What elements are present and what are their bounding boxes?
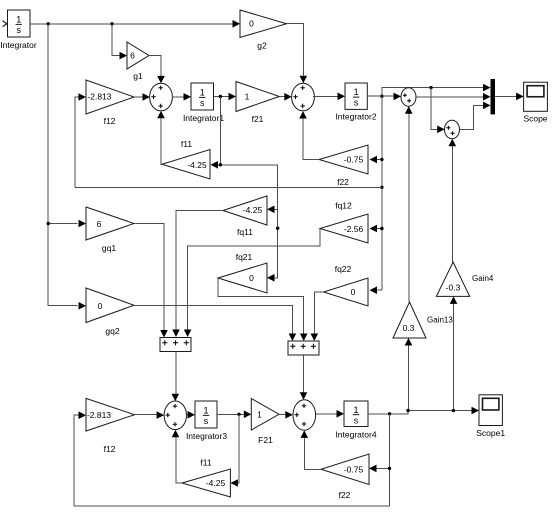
svg-text:-0.75: -0.75 bbox=[344, 155, 364, 165]
svg-text:1: 1 bbox=[354, 87, 359, 97]
svg-text:f12: f12 bbox=[104, 116, 116, 126]
gain g2 (0) bbox=[240, 10, 287, 38]
svg-text:0: 0 bbox=[249, 19, 254, 29]
svg-text:-2.813: -2.813 bbox=[87, 92, 111, 102]
gain f11 bottom (-4.25) bbox=[182, 469, 230, 497]
svg-text:-4.25: -4.25 bbox=[206, 478, 226, 488]
wire Integrator output rail to g2 bbox=[30, 20, 240, 28]
wire sum2 to Integrator2 bbox=[313, 93, 345, 101]
gain gq1 (6) bbox=[86, 207, 134, 240]
svg-text:Integrator2: Integrator2 bbox=[335, 112, 376, 122]
wire Integrator4 output rail to Scope1 bbox=[368, 407, 479, 416]
sum rectangle block right (+ + +) bbox=[288, 341, 319, 355]
label Gain13 bbox=[427, 316, 453, 325]
integrator block Integrator3 bbox=[195, 401, 217, 428]
svg-text:-4.25: -4.25 bbox=[243, 205, 263, 215]
integrator block Integrator2 bbox=[345, 83, 367, 109]
junction dot at (112,24) bbox=[110, 22, 113, 25]
sum block Sum5 bbox=[445, 120, 460, 138]
svg-text:s: s bbox=[17, 25, 22, 35]
wire x2 feedback line to f12 bbox=[75, 186, 382, 188]
label Integrator3 bbox=[186, 431, 227, 441]
sum block Sum5b bottom-right bbox=[293, 400, 316, 430]
label Integrator bbox=[0, 40, 37, 50]
wire Gain4 input from bottom rail bbox=[450, 296, 458, 410]
wire Gain13 input from bottom rail bbox=[405, 338, 413, 411]
svg-text:gq1: gq1 bbox=[102, 243, 116, 253]
svg-text:0: 0 bbox=[98, 301, 103, 311]
wire F21 output to sum4b bbox=[279, 411, 293, 419]
label Scope bbox=[523, 114, 547, 124]
label f22 bottom bbox=[339, 490, 351, 500]
gain fq21 (0) bbox=[218, 263, 267, 293]
svg-text:Integrator1: Integrator1 bbox=[183, 113, 224, 123]
gain fq22 (0) bbox=[324, 278, 369, 306]
wire fq22 output to sum rect R bbox=[311, 292, 324, 341]
wire f11b output to sum4 bottom bbox=[172, 430, 182, 483]
wire f12b output to sum4 bbox=[135, 411, 165, 419]
svg-text:gq2: gq2 bbox=[105, 326, 119, 336]
svg-text:s: s bbox=[204, 416, 209, 426]
wire f11 output to sum1 bottom bbox=[157, 111, 165, 165]
gain gq2 (0) bbox=[86, 288, 134, 323]
wire fq21 output to sum rect R bbox=[218, 278, 308, 341]
wire sum rect R output to sum4b top bbox=[300, 356, 308, 400]
gain f22 bottom (-0.75) bbox=[321, 454, 369, 485]
svg-text:s: s bbox=[354, 98, 359, 108]
label f21 bbox=[252, 114, 264, 124]
svg-text:Scope: Scope bbox=[523, 114, 547, 124]
wire fq11 output down to sum rect L bbox=[172, 211, 223, 338]
svg-text:0: 0 bbox=[351, 287, 356, 297]
svg-text:0: 0 bbox=[249, 273, 254, 283]
wire sum3 output to mux input2 bbox=[416, 93, 491, 101]
svg-text:g2: g2 bbox=[257, 41, 267, 51]
svg-text:f11: f11 bbox=[200, 458, 211, 468]
wire fq12 output down to sum rect L bbox=[184, 229, 320, 338]
svg-text:F21: F21 bbox=[258, 435, 273, 445]
wire Gain4 output up to sum5 bottom bbox=[449, 139, 457, 262]
scope block Scope1 bbox=[479, 395, 502, 426]
gain f12 (-2.813) bbox=[86, 80, 134, 114]
svg-text:0.3: 0.3 bbox=[403, 323, 415, 333]
label fq12 bbox=[335, 201, 352, 211]
svg-text:-2.56: -2.56 bbox=[344, 224, 364, 234]
gain f12 bottom (-2.813) bbox=[86, 398, 135, 431]
label g1 bbox=[133, 71, 143, 81]
svg-text:1: 1 bbox=[353, 405, 358, 415]
wire f22b output to sum4b bottom bbox=[301, 430, 322, 469]
svg-text:Integrator3: Integrator3 bbox=[186, 431, 227, 441]
wire Integrator2 output to sum3 bbox=[367, 93, 401, 101]
label fq21 bbox=[236, 252, 253, 262]
wire gq2 output to sum rect R bbox=[134, 306, 296, 342]
label gq1 bbox=[102, 243, 116, 253]
label f12 top bbox=[104, 116, 116, 126]
label Integrator4 bbox=[335, 430, 376, 440]
input port arrow of Integrator bbox=[3, 21, 8, 27]
svg-text:-4.25: -4.25 bbox=[187, 160, 207, 170]
wire mux output to Scope bbox=[495, 93, 524, 101]
label Integrator2 bbox=[335, 112, 376, 122]
svg-text:s: s bbox=[354, 415, 359, 425]
mux block bbox=[491, 79, 496, 114]
label fq11 bbox=[237, 227, 253, 237]
wire Gain13 output up to sum3 bottom bbox=[405, 106, 413, 302]
svg-text:1: 1 bbox=[203, 406, 208, 416]
wire branch x=48 down to gq1 and gq2 bbox=[47, 24, 87, 310]
wire g1 output to sum1 top bbox=[149, 56, 165, 84]
sum block Sum2 bbox=[292, 83, 315, 111]
gain Gain4 (-0.3) bbox=[436, 262, 469, 296]
wire f22 output to sum2 bottom bbox=[299, 111, 319, 160]
integrator block Integrator1 bbox=[191, 83, 214, 110]
svg-text:Integrator4: Integrator4 bbox=[335, 430, 376, 440]
label Scope1 bbox=[476, 428, 505, 438]
label f12 bottom bbox=[104, 444, 116, 454]
wire f12 input from feedback line bbox=[75, 93, 86, 187]
wire branch down to sum5 left bbox=[431, 88, 445, 134]
svg-text:6: 6 bbox=[130, 51, 135, 61]
svg-text:-0.3: -0.3 bbox=[446, 283, 461, 293]
integrator block Integrator4 bbox=[344, 401, 368, 427]
svg-text:1: 1 bbox=[257, 410, 262, 420]
svg-text:fq22: fq22 bbox=[335, 264, 352, 274]
label gq2 bbox=[105, 326, 119, 336]
label Gain4 bbox=[472, 274, 494, 283]
svg-text:Scope1: Scope1 bbox=[476, 428, 505, 438]
svg-text:f21: f21 bbox=[252, 114, 264, 124]
wire g2 output to sum2 top bbox=[287, 24, 308, 83]
label Integrator1 bbox=[183, 113, 224, 123]
svg-text:f22: f22 bbox=[337, 177, 349, 187]
wire sum5 output to mux input3 bbox=[460, 102, 491, 130]
wire Integrator3 output to F21 bbox=[217, 411, 251, 419]
gain Gain13 (0.3) bbox=[393, 302, 426, 338]
wire Integrator2 out up to mux input1 bbox=[382, 84, 491, 96]
svg-text:Integrator: Integrator bbox=[0, 40, 37, 50]
label f11 bottom bbox=[200, 458, 211, 468]
svg-text:f12: f12 bbox=[104, 444, 116, 454]
wire f12b input from bottom feedback bbox=[74, 411, 86, 506]
wire f21 output to sum2 bbox=[279, 93, 292, 101]
svg-text:-0.75: -0.75 bbox=[344, 465, 364, 475]
svg-text:f11: f11 bbox=[181, 139, 192, 149]
svg-text:1: 1 bbox=[16, 15, 21, 25]
wire gq1 output down to sum rect L bbox=[134, 224, 168, 338]
svg-text:Gain4: Gain4 bbox=[472, 274, 494, 283]
junction dot at (48,24) bbox=[47, 22, 50, 25]
integrator block Integrator (1/s) bbox=[8, 10, 31, 37]
label f11 top bbox=[181, 139, 192, 149]
label F21 bbox=[258, 435, 273, 445]
wire branch x=112 to g1 bbox=[112, 24, 127, 60]
gain f11 (-4.25) bbox=[162, 150, 210, 180]
svg-text:s: s bbox=[200, 98, 205, 108]
wire x3 branch down to f11b bbox=[230, 414, 239, 487]
sum rectangle block left (+ + +) bbox=[160, 338, 191, 352]
svg-text:1: 1 bbox=[200, 88, 205, 98]
gain f22 (-0.75) bbox=[319, 145, 368, 174]
label f22 top bbox=[337, 177, 349, 187]
sum block Sum4 bbox=[164, 401, 186, 430]
scope block Scope bbox=[524, 82, 548, 111]
gain f21 (1) bbox=[236, 82, 279, 112]
wire sum4b to Integrator4 bbox=[316, 410, 344, 418]
sum block Sum3 bbox=[401, 88, 416, 106]
svg-text:-2.813: -2.813 bbox=[87, 410, 111, 420]
wire x2 branch down to f22 fq12 fq22 bbox=[370, 96, 384, 294]
svg-text:1: 1 bbox=[245, 92, 250, 102]
wire sum1 to Integrator1 bbox=[172, 93, 191, 101]
gain F21 (1) bbox=[251, 399, 279, 431]
svg-text:fq12: fq12 bbox=[335, 201, 352, 211]
label g2 bbox=[257, 41, 267, 51]
wire Integrator1 output to f21 bbox=[214, 93, 237, 101]
gain fq12 (-2.56) bbox=[320, 214, 368, 243]
svg-text:fq21: fq21 bbox=[236, 252, 253, 262]
svg-text:f22: f22 bbox=[339, 490, 351, 500]
wire x1 branch down to f11 fq11 fq21 bbox=[211, 97, 280, 282]
svg-text:fq11: fq11 bbox=[237, 227, 253, 237]
svg-text:6: 6 bbox=[97, 219, 102, 229]
svg-text:Gain13: Gain13 bbox=[427, 316, 453, 325]
label fq22 bbox=[335, 264, 352, 274]
gain g1 (6) bbox=[127, 42, 149, 69]
svg-text:g1: g1 bbox=[133, 71, 143, 81]
wire sum rect L output to sum4 top bbox=[172, 352, 180, 401]
wire sum4 to Integrator3 bbox=[187, 411, 196, 419]
gain fq11 (-4.25) bbox=[223, 196, 267, 225]
sum block Sum1 bbox=[150, 83, 173, 111]
wire branch down x=389 to f22b and feedback bbox=[74, 414, 391, 506]
wire f12 output to sum1 bbox=[134, 93, 150, 101]
